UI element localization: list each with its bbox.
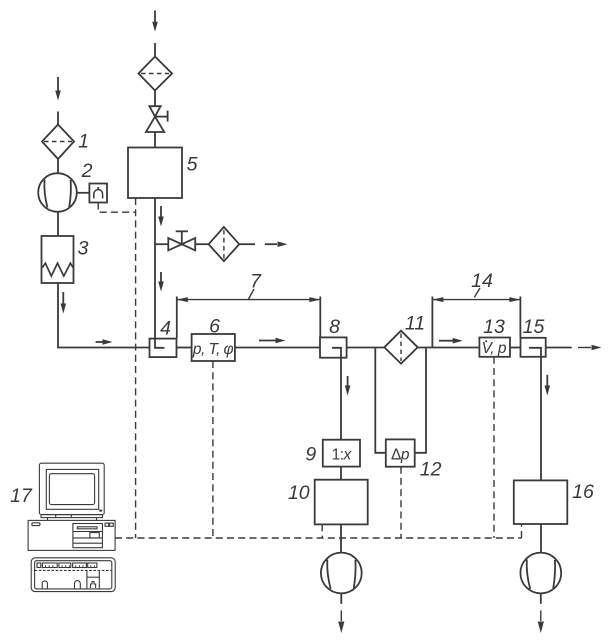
wire valve to tank 5 xyxy=(154,132,156,148)
power mark xyxy=(99,510,102,512)
wire box8 to filter 11 xyxy=(347,347,385,349)
wire box13 to box15 xyxy=(510,347,521,349)
wire box8 down to box9 xyxy=(340,358,342,440)
fan/blower 2 (circle with vanes) xyxy=(38,173,77,212)
mixing box 4 xyxy=(150,339,177,358)
diverter box 15 xyxy=(521,338,546,357)
filter 11 (diamond on main line) xyxy=(384,331,417,364)
top filter (diamond, unlabelled) xyxy=(139,57,173,91)
svg-text:17: 17 xyxy=(10,485,33,507)
flow arrow below box15 xyxy=(545,375,551,396)
suction fan below 10 xyxy=(321,553,362,594)
flow arrow below box8 xyxy=(345,376,351,396)
outlet dashed arrow below right fan xyxy=(538,593,544,633)
flow arrow between 6 and 8 xyxy=(259,338,286,344)
dp tap right xyxy=(415,348,426,453)
filter 1 (diamond) xyxy=(42,125,74,160)
svg-text:7: 7 xyxy=(250,271,262,293)
scaler box 9 (1:x) xyxy=(323,440,360,467)
signal wire (dashed) box13 to bus xyxy=(493,357,495,538)
svg-text:9: 9 xyxy=(305,444,316,466)
svg-text:12: 12 xyxy=(420,459,442,481)
flow arrow below cooler3 xyxy=(61,292,67,314)
wire filter to valve xyxy=(154,91,156,107)
suction fan below 16 xyxy=(520,553,561,594)
outlet dashed arrow below left fan xyxy=(338,593,344,633)
svg-text:p, T, φ: p, T, φ xyxy=(192,341,234,358)
wire valve to vent filter xyxy=(195,243,208,245)
monitor base strip xyxy=(41,515,103,518)
tank 5 xyxy=(128,148,182,199)
monitor screen xyxy=(49,474,94,505)
monitor neck xyxy=(47,518,49,521)
signal wire (dashed) box10 to bus xyxy=(321,524,323,538)
flow arrow below tank 5 xyxy=(158,206,164,227)
case xyxy=(28,520,115,550)
svg-text:16: 16 xyxy=(572,481,594,503)
wire cooler3 down to main line bend xyxy=(58,283,150,348)
svg-text:11: 11 xyxy=(405,313,425,335)
flow meter box 13 (V,p) xyxy=(479,338,510,357)
sensor box 6 p,T,phi xyxy=(192,334,235,361)
vent filter (diamond) xyxy=(209,227,240,261)
shut-off valve (vertical) with side handle xyxy=(146,106,168,132)
svg-text:1:x: 1:x xyxy=(332,446,353,463)
svg-text:Δp: Δp xyxy=(391,447,410,464)
wire filter1 to fan2 xyxy=(57,159,59,174)
svg-text:10: 10 xyxy=(288,482,310,504)
signal wire (dashed) motor to vertical bus xyxy=(98,203,135,213)
inlet arrow centre branch xyxy=(152,11,158,32)
wire box16 to fan xyxy=(540,524,542,553)
dimension line 14 xyxy=(432,288,520,348)
vent outlet wire and dashed arrow xyxy=(239,241,287,247)
dimension line 7 xyxy=(177,289,320,338)
wire fan2 to cooler3 xyxy=(57,212,59,236)
monitor outer xyxy=(39,463,104,514)
wire inlet to top filter xyxy=(154,43,156,57)
svg-text:V, p: V, p xyxy=(482,340,507,357)
wire inlet to filter 1 xyxy=(57,112,59,125)
wire filter11 to box13 xyxy=(418,347,480,349)
wire fan2 to motor box xyxy=(77,192,90,194)
signal wire (dashed) vertical from tank5/motor to bus xyxy=(135,198,137,538)
wire tank5 down to box 4 xyxy=(154,198,156,339)
svg-text:2: 2 xyxy=(81,160,93,182)
wire box10 to fan xyxy=(340,524,342,552)
svg-text:15: 15 xyxy=(523,316,545,338)
vent branch wire to valve xyxy=(155,243,168,245)
flow arrow lower on tank5 drop xyxy=(158,272,164,292)
dp transducer box 12 xyxy=(386,439,415,466)
flow arrow on main line before box 4 xyxy=(96,339,113,345)
meter box 10 xyxy=(315,480,368,525)
svg-text:3: 3 xyxy=(78,238,89,260)
wire box15 down to box16 xyxy=(540,357,542,481)
wire box6 to box8 xyxy=(235,347,320,349)
svg-text:4: 4 xyxy=(160,318,171,340)
wire box9 to box10 xyxy=(340,467,342,480)
vent valve (horizontal) with top handle xyxy=(168,231,195,250)
cooler / heat exchanger 3 xyxy=(42,236,74,283)
svg-text:6: 6 xyxy=(209,316,220,338)
wire box4 to box6 xyxy=(177,347,192,349)
signal wire (dashed) box12 to bus xyxy=(400,467,402,538)
outlet wire right and dashed arrow xyxy=(546,345,602,351)
inlet arrow left branch xyxy=(55,77,61,101)
flow arrow between 11 and 13 xyxy=(439,338,463,344)
monitor bezel xyxy=(46,469,98,509)
meter box 16 xyxy=(514,480,568,524)
keyboard xyxy=(31,558,115,592)
svg-text:1: 1 xyxy=(78,131,89,153)
computer 17 xyxy=(28,463,115,591)
drive bay xyxy=(73,524,103,548)
svg-text:14: 14 xyxy=(471,270,493,292)
diverter box 8 xyxy=(320,337,347,357)
svg-text:13: 13 xyxy=(483,316,505,338)
signal wire (dashed) box6 down to bus xyxy=(212,361,214,538)
dp tap left xyxy=(375,348,386,453)
motor drive box of fan 2 xyxy=(89,184,107,203)
signal bus (dashed) from computer to box16 xyxy=(115,524,522,538)
svg-text:8: 8 xyxy=(329,316,340,338)
svg-text:5: 5 xyxy=(187,154,198,176)
